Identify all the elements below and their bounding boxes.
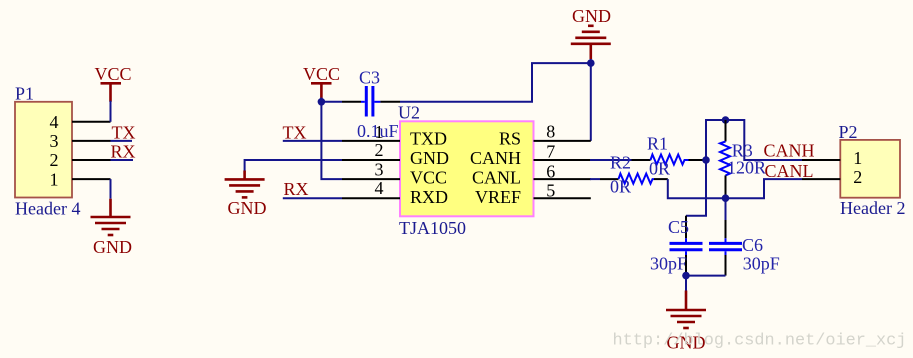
ground GND (below P1) bbox=[91, 199, 133, 257]
resistor R3 bbox=[720, 120, 730, 198]
junction top GND node bbox=[587, 59, 595, 67]
svg-text:GND: GND bbox=[93, 237, 132, 257]
designator C3 bbox=[359, 67, 380, 87]
svg-text:C6: C6 bbox=[742, 235, 763, 255]
svg-text:R1: R1 bbox=[647, 134, 668, 154]
svg-text:RX: RX bbox=[111, 141, 136, 161]
net label CANH bbox=[764, 141, 815, 161]
junction VCC node bbox=[318, 98, 326, 106]
value TJA1050 bbox=[399, 218, 466, 238]
value 30pF (C6) bbox=[743, 254, 780, 274]
pin number 2 (P2) bbox=[853, 167, 862, 187]
wire TX stub bbox=[111, 140, 133, 142]
svg-text:VCC: VCC bbox=[410, 168, 447, 188]
svg-text:2: 2 bbox=[50, 150, 59, 170]
pin U2.4 RXD bbox=[342, 197, 400, 199]
designator C5 bbox=[668, 217, 689, 237]
svg-text:0R: 0R bbox=[649, 159, 670, 179]
wire U2 pin 6 to R2 bbox=[590, 178, 600, 180]
svg-text:CANL: CANL bbox=[472, 168, 521, 188]
pin name RXD bbox=[410, 187, 448, 207]
svg-text:VREF: VREF bbox=[475, 187, 521, 207]
svg-text:Header 4: Header 4 bbox=[15, 199, 80, 219]
svg-text:3: 3 bbox=[50, 131, 59, 151]
comment Header 4 bbox=[15, 199, 80, 219]
pin U2.5 VREF bbox=[534, 197, 591, 199]
resistor R1 bbox=[632, 155, 707, 165]
pin U2.1 TXD bbox=[342, 140, 400, 142]
pin name CANH bbox=[470, 148, 521, 168]
designator P2 bbox=[839, 122, 858, 142]
junction CANL node bbox=[722, 194, 730, 202]
pin P1.3 bbox=[72, 140, 111, 142]
svg-text:C5: C5 bbox=[668, 217, 689, 237]
svg-text:3: 3 bbox=[375, 159, 384, 179]
wire top GND junction down to U2 pin 8 bbox=[590, 63, 592, 141]
svg-text:0R: 0R bbox=[610, 177, 631, 197]
pin name GND bbox=[410, 148, 449, 168]
pin U2.3 VCC bbox=[342, 178, 400, 180]
pin number 4 (P1) bbox=[50, 112, 59, 132]
wire to bottom GND bbox=[685, 276, 687, 292]
junction C5/C6 ground node bbox=[682, 272, 690, 280]
svg-text:TX: TX bbox=[283, 122, 307, 142]
svg-text:1: 1 bbox=[50, 169, 59, 189]
pin number 3 (U2) bbox=[375, 159, 384, 179]
pin U2.6 CANL bbox=[534, 178, 592, 180]
pin number 3 (P1) bbox=[50, 131, 59, 151]
pin P2.2 bbox=[802, 178, 840, 180]
svg-text:VCC: VCC bbox=[303, 64, 340, 84]
wire RX to U2 RXD bbox=[283, 197, 342, 199]
wire U2 GND pin to ground bbox=[245, 160, 342, 172]
net label CANL bbox=[765, 161, 814, 181]
net label TX (at U2) bbox=[283, 122, 307, 142]
junction R3 top node bbox=[722, 116, 730, 124]
pin P2.1 bbox=[802, 159, 840, 161]
pin number 1 (P2) bbox=[853, 148, 862, 168]
pin name VREF bbox=[475, 187, 521, 207]
wire VCC stem to junction bbox=[320, 98, 322, 102]
value 0.1uF bbox=[357, 121, 399, 141]
net label RX (left stub) bbox=[111, 141, 136, 161]
pin name TXD bbox=[410, 129, 447, 149]
wire CANH down to C5 bbox=[686, 160, 706, 216]
svg-text:1: 1 bbox=[853, 148, 862, 168]
svg-text:2: 2 bbox=[375, 140, 384, 160]
wire VCC junction down to U2 VCC pin bbox=[321, 102, 342, 179]
junction CANH node bbox=[702, 156, 710, 164]
svg-text:5: 5 bbox=[546, 180, 555, 200]
designator C6 bbox=[742, 235, 763, 255]
svg-text:VCC: VCC bbox=[95, 64, 132, 84]
pin number 2 (P1) bbox=[50, 150, 59, 170]
header P1 bbox=[15, 102, 72, 198]
svg-text:8: 8 bbox=[546, 121, 555, 141]
svg-text:U2: U2 bbox=[398, 103, 420, 123]
capacitor C6 bbox=[709, 198, 742, 275]
pin P1.1 bbox=[72, 178, 111, 180]
ground GND (left of U2) bbox=[225, 171, 267, 218]
power VCC (left) bbox=[95, 64, 132, 102]
value 0R (R1) bbox=[649, 159, 670, 179]
svg-text:CANH: CANH bbox=[470, 148, 521, 168]
pin name VCC bbox=[410, 168, 447, 188]
svg-text:CANL: CANL bbox=[765, 161, 814, 181]
net label RX (at U2) bbox=[284, 179, 309, 199]
svg-text:30pF: 30pF bbox=[650, 254, 687, 274]
svg-text:RXD: RXD bbox=[410, 187, 448, 207]
comment Header 2 bbox=[840, 198, 905, 218]
value 30pF (C5) bbox=[650, 254, 687, 274]
wire TX to U2 TXD bbox=[283, 140, 342, 142]
svg-text:RS: RS bbox=[499, 129, 521, 149]
svg-text:7: 7 bbox=[546, 141, 555, 161]
svg-text:1: 1 bbox=[375, 122, 384, 142]
pin name RS bbox=[499, 129, 521, 149]
wire VCC to P1 pin 4 bbox=[110, 101, 112, 122]
pin U2.2 GND bbox=[342, 159, 400, 161]
header P2 bbox=[840, 140, 900, 198]
svg-text:http://blog.csdn.net/oier_xcj: http://blog.csdn.net/oier_xcj bbox=[613, 332, 907, 351]
wire CANH from U2 pin 7 to R1 bbox=[590, 159, 632, 161]
wire C6 bottom to C5 bottom bbox=[686, 275, 726, 277]
op-amp U2 body bbox=[400, 121, 534, 216]
designator R3 bbox=[732, 140, 753, 160]
wire RX stub bbox=[111, 159, 134, 161]
pin number 1 (U2) bbox=[375, 122, 384, 142]
svg-text:P1: P1 bbox=[15, 84, 34, 104]
ground GND (bottom) bbox=[666, 291, 706, 353]
wire CANH bridge over R3 bbox=[706, 120, 802, 160]
pin U2.7 CANH bbox=[534, 159, 592, 161]
svg-text:C3: C3 bbox=[359, 67, 380, 87]
svg-text:2: 2 bbox=[853, 167, 862, 187]
wire CANL jog down and right bbox=[668, 179, 802, 198]
designator R1 bbox=[647, 134, 668, 154]
svg-text:TX: TX bbox=[112, 123, 136, 143]
designator R2 bbox=[610, 153, 631, 173]
designator U2 bbox=[398, 103, 420, 123]
svg-text:GND: GND bbox=[410, 148, 449, 168]
pin number 4 (U2) bbox=[375, 178, 384, 198]
pin number 8 (U2) bbox=[546, 121, 555, 141]
designator P1 bbox=[15, 84, 34, 104]
svg-text:R2: R2 bbox=[610, 153, 631, 173]
svg-text:RX: RX bbox=[284, 179, 309, 199]
power VCC (middle) bbox=[303, 64, 340, 99]
pin number 5 (U2) bbox=[546, 180, 555, 200]
svg-text:CANH: CANH bbox=[764, 141, 815, 161]
pin number 6 (U2) bbox=[546, 161, 555, 181]
svg-text:30pF: 30pF bbox=[743, 254, 780, 274]
svg-text:6: 6 bbox=[546, 161, 555, 181]
svg-text:GND: GND bbox=[228, 198, 267, 218]
wire C3 to top GND bbox=[400, 63, 591, 102]
capacitor C3 bbox=[342, 86, 400, 117]
net label TX (left stub) bbox=[112, 123, 136, 143]
ground GND (top, inverted) bbox=[571, 6, 611, 63]
watermark bbox=[613, 332, 907, 351]
pin U2.8 RS bbox=[534, 140, 591, 142]
pin number 1 (P1) bbox=[50, 169, 59, 189]
wire P1 pin 1 to GND bbox=[110, 179, 112, 199]
wire VCC junction to C3 bbox=[321, 101, 342, 103]
svg-text:Header 2: Header 2 bbox=[840, 198, 905, 218]
pin P1.2 bbox=[72, 159, 111, 161]
capacitor C5 bbox=[670, 216, 703, 276]
svg-text:120R: 120R bbox=[727, 157, 766, 177]
svg-text:TXD: TXD bbox=[410, 129, 447, 149]
svg-text:4: 4 bbox=[50, 112, 59, 132]
pin number 7 (U2) bbox=[546, 141, 555, 161]
pin P1.4 bbox=[72, 121, 111, 123]
resistor R2 bbox=[600, 174, 668, 184]
pin name CANL bbox=[472, 168, 521, 188]
svg-text:4: 4 bbox=[375, 178, 384, 198]
svg-text:TJA1050: TJA1050 bbox=[399, 218, 466, 238]
pin number 2 (U2) bbox=[375, 140, 384, 160]
value 0R (R2) bbox=[610, 177, 631, 197]
svg-text:P2: P2 bbox=[839, 122, 858, 142]
value 120R bbox=[727, 157, 766, 177]
svg-text:GND: GND bbox=[572, 6, 611, 26]
